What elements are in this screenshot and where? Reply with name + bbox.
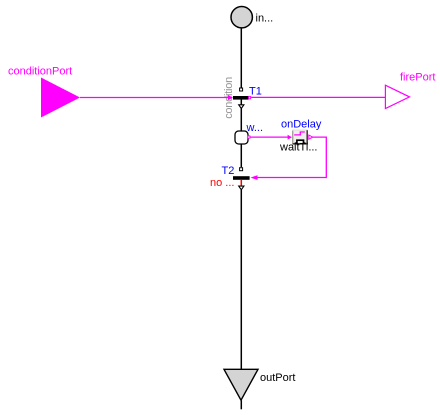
- wire onDelay to corner: [257, 137, 326, 177]
- wire from inPort to T1: [240, 28, 242, 88]
- wire waitStep to onDelay: [250, 136, 289, 138]
- step waitStep rounded box: [235, 131, 248, 144]
- wire T2 bar to output triangle red: [240, 180, 242, 186]
- transition T1 firePort pin square: [249, 97, 251, 99]
- svg-text:in...: in...: [256, 13, 274, 25]
- wire T1 bar to output triangle: [240, 100, 242, 106]
- arrowhead into T2 condition input: [251, 175, 258, 180]
- block onDelay bevel top: [292, 130, 308, 131]
- svg-text:no ...: no ...: [210, 177, 234, 189]
- onDelay output waveform black: [295, 140, 306, 143]
- wire conditionPort to T1: [80, 97, 230, 99]
- transition T2 bar: [233, 176, 250, 180]
- transition T1 input square pin: [240, 88, 243, 91]
- wire below outPort: [240, 400, 242, 409]
- svg-text:w...: w...: [246, 122, 264, 134]
- state inPort circle: [231, 7, 252, 28]
- svg-text:waitTi...: waitTi...: [279, 142, 318, 154]
- waitStep active output pin: [248, 136, 250, 138]
- transition T2 input square pin: [240, 168, 243, 171]
- svg-text:T2: T2: [222, 165, 235, 177]
- svg-text:firePort: firePort: [400, 72, 435, 84]
- transition T2 output pin triangle: [239, 186, 244, 190]
- block onDelay bevel bottom: [293, 143, 308, 145]
- wire T2 to outPort: [240, 190, 242, 369]
- arrowhead into onDelay input: [288, 135, 292, 140]
- conditionPort connector triangle: [41, 78, 80, 118]
- block onDelay bevel right: [306, 130, 308, 144]
- block onDelay bevel left: [292, 130, 293, 145]
- svg-text:T1: T1: [249, 85, 262, 97]
- wire T1 to waitStep: [240, 109, 242, 132]
- onDelay input waveform magenta: [294, 132, 305, 135]
- arrowhead into T1 condition input: [228, 95, 233, 100]
- outPort connector triangle: [224, 369, 258, 400]
- onDelay output pin open triangle: [309, 135, 313, 139]
- svg-text:conditionPort: conditionPort: [8, 66, 72, 78]
- wire waitStep to T2: [240, 144, 242, 167]
- transition T1 output pin triangle: [239, 105, 244, 109]
- wire T1 firePort to firePort: [251, 96, 386, 98]
- firePort connector open triangle: [385, 85, 409, 108]
- block onDelay body: [292, 130, 308, 145]
- transition T1 bar: [233, 96, 249, 100]
- svg-text:outPort: outPort: [260, 372, 295, 384]
- svg-text:onDelay: onDelay: [281, 119, 322, 131]
